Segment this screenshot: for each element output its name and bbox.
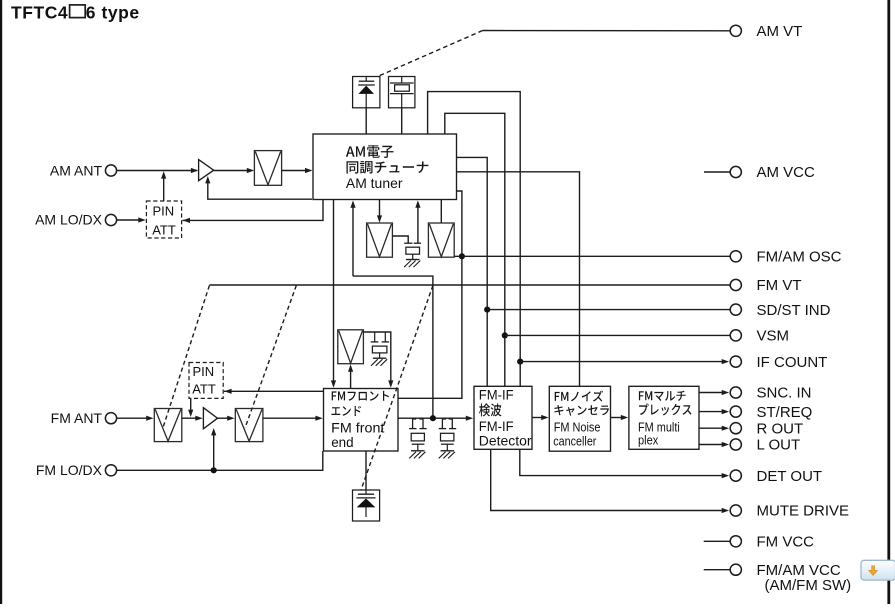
tuned circuit FM osc coil bbox=[338, 330, 364, 364]
node junction VSM bbox=[502, 332, 508, 338]
svg-text:AM tuner: AM tuner bbox=[346, 175, 403, 191]
wire AM tuner osc pin to FM/AM OSC node and FM front end bbox=[398, 191, 462, 398]
svg-text:TFTC4: TFTC4 bbox=[11, 2, 68, 22]
wire resonator X1 to AM tuner bbox=[401, 108, 403, 134]
terminal SD/ST IND bbox=[730, 304, 741, 315]
wire varactor D1 to AM tuner bbox=[365, 108, 367, 134]
svg-text:canceller: canceller bbox=[553, 434, 597, 449]
scroll-down button bbox=[861, 560, 895, 580]
wire FM front end to FM-IF detector bus bbox=[398, 417, 467, 419]
wire multiplex to SNC. IN bbox=[699, 392, 722, 394]
wire AM LO/DX to PIN ATT bbox=[117, 219, 140, 221]
wire osc coil top to FM front end bbox=[363, 332, 390, 382]
wire noise canceller to multiplex bbox=[611, 417, 623, 419]
wire dashed AM VT to varactor D1 bbox=[378, 31, 483, 77]
wire AM tuner to osc coil L2 bbox=[440, 200, 442, 224]
svg-text:FM ANT: FM ANT bbox=[51, 410, 103, 426]
svg-text:L OUT: L OUT bbox=[757, 437, 801, 454]
wire MUTE DRIVE bbox=[491, 449, 722, 510]
wire IF COUNT line bbox=[520, 361, 722, 363]
wire FM-IF to noise canceller bbox=[532, 417, 542, 419]
wire AM tuner to FM front end bbox=[333, 200, 335, 382]
node junction FM/AM OSC bbox=[459, 253, 465, 259]
wire FM/AM OSC line bbox=[454, 255, 730, 257]
svg-text:IF COUNT: IF COUNT bbox=[757, 354, 828, 371]
block FM PIN ATT bbox=[189, 363, 223, 399]
wire DET OUT bbox=[520, 449, 722, 475]
page left border bbox=[0, 0, 2, 604]
wire multiplex to L OUT bbox=[699, 444, 722, 446]
wire dashed FM VT to FM RF coil bbox=[245, 286, 296, 429]
svg-text:AM VCC: AM VCC bbox=[757, 164, 816, 181]
wire FM VT line bbox=[209, 284, 730, 286]
terminal FM VT bbox=[730, 279, 741, 290]
wire AM tuner pin to SNC feed (via top) to FM-IF (IF COUNT tap) bbox=[428, 92, 521, 387]
capacitor C4 to ground bbox=[442, 419, 446, 429]
ground under C3 bbox=[411, 450, 425, 452]
node junction SD/ST IND bbox=[484, 307, 490, 313]
svg-text:FM VCC: FM VCC bbox=[757, 534, 815, 551]
terminal FM VCC bbox=[730, 536, 741, 547]
ground under C2 bbox=[373, 357, 387, 359]
tuned circuit L1 (AM osc coil) bbox=[367, 223, 393, 257]
tuned circuit FM antenna coil bbox=[154, 409, 182, 442]
block AM PIN ATT bbox=[146, 201, 181, 238]
wire FM PIN ATT down to antenna line bbox=[190, 398, 192, 411]
svg-text:FM VT: FM VT bbox=[757, 277, 802, 294]
svg-text:FM front: FM front bbox=[331, 421, 384, 436]
terminal SNC. IN bbox=[730, 387, 741, 398]
wire AM tuner to osc coil L1 bbox=[379, 200, 381, 218]
terminal AM VCC bbox=[730, 166, 741, 177]
block U5 FM multiplex bbox=[629, 386, 699, 449]
svg-text:plex: plex bbox=[638, 433, 659, 448]
resonator X1 box bbox=[389, 77, 415, 108]
wire FM ANT to antenna coil bbox=[117, 417, 148, 419]
wire AM VT terminal lead bbox=[483, 30, 731, 32]
svg-text:AM VT: AM VT bbox=[757, 23, 803, 40]
capacitor C2 (FM osc trimmer) bbox=[374, 332, 376, 342]
wire dashed FM VT to FM antenna coil bbox=[163, 286, 209, 428]
wire AM tuned circuit to AM tuner block bbox=[282, 170, 306, 172]
svg-text:FM/AM OSC: FM/AM OSC bbox=[757, 249, 842, 266]
svg-text:AM ANT: AM ANT bbox=[50, 162, 103, 178]
capacitor C3 to ground bbox=[413, 419, 417, 429]
svg-text:PIN: PIN bbox=[153, 203, 175, 218]
capacitor C1 (AM padder, split) bbox=[404, 242, 412, 244]
svg-text:DET OUT: DET OUT bbox=[757, 468, 823, 485]
svg-text:end: end bbox=[331, 435, 353, 450]
svg-text:ATT: ATT bbox=[192, 382, 216, 397]
amplifier AM RF amp bbox=[199, 160, 214, 181]
block U3 FM-IF detector bbox=[474, 386, 532, 449]
svg-text:Detector: Detector bbox=[479, 434, 532, 449]
amplifier FM RF amp bbox=[203, 408, 217, 429]
wire AM IF output to FM-IF input bus bbox=[353, 276, 433, 418]
wire AM tuner pin via top to FM-IF (VSM tap) bbox=[445, 113, 505, 386]
varactor D1 (AM tuning) box bbox=[353, 77, 380, 108]
svg-text:FM Noise: FM Noise bbox=[554, 420, 601, 435]
wire multiplex to ST/REQ bbox=[699, 411, 722, 413]
wire AM tuner right pin to FM-IF (SD/ST tap) bbox=[457, 157, 488, 386]
svg-text:SD/ST IND: SD/ST IND bbox=[757, 302, 831, 319]
tuned circuit AM RF coil bbox=[254, 151, 281, 186]
wire multiplex to R OUT bbox=[699, 427, 722, 429]
block U4 FM noise canceller bbox=[549, 386, 610, 451]
ground under C1 bbox=[406, 259, 420, 261]
svg-text:R OUT: R OUT bbox=[757, 420, 804, 437]
wire FM RF coil to FM front end bbox=[263, 417, 316, 419]
terminal MUTE DRIVE bbox=[730, 505, 741, 516]
terminal FM/AM VCC bbox=[730, 564, 741, 575]
svg-text:ATT: ATT bbox=[152, 222, 176, 237]
tuned circuit L2 (AM osc coil) bbox=[428, 223, 454, 257]
varactor D2 (FM tuning) box bbox=[353, 490, 380, 521]
terminal L OUT bbox=[730, 439, 741, 450]
svg-text:6 type: 6 type bbox=[86, 2, 140, 22]
page right border bbox=[887, 0, 890, 604]
svg-text:FM-IF: FM-IF bbox=[479, 419, 514, 434]
wire AM VCC terminal stub bbox=[704, 171, 730, 173]
wire dashed FM VT to FM osc varactor bbox=[361, 286, 433, 491]
node junction IF COUNT bbox=[517, 359, 523, 365]
wire FM coil to amplifier bbox=[182, 417, 197, 419]
node junction FM LO/DX bbox=[211, 467, 217, 473]
wire AM tuner to PIN ATT (AGC control) bbox=[182, 200, 323, 221]
wire FM/AM VCC stub bbox=[704, 569, 731, 571]
wire VSM line bbox=[505, 334, 730, 336]
wire AM PIN ATT to antenna line bbox=[163, 177, 165, 202]
ground under C4 bbox=[441, 450, 455, 452]
terminal R OUT bbox=[730, 423, 741, 434]
tuned circuit FM RF coil bbox=[235, 409, 263, 442]
wire FM front end to osc coil bottom bbox=[350, 369, 352, 388]
terminal AM VT bbox=[730, 25, 741, 36]
wire FM LO/DX line bbox=[117, 451, 323, 470]
wire AM AGC to amplifier bbox=[208, 182, 312, 200]
wire amp to AM tuned circuit bbox=[214, 170, 248, 172]
block U2 FM front end bbox=[324, 389, 399, 452]
wire FM front end to varactor D2 bbox=[365, 451, 367, 490]
svg-text:MUTE DRIVE: MUTE DRIVE bbox=[757, 503, 850, 520]
terminal VSM bbox=[730, 330, 741, 341]
svg-text:VSM: VSM bbox=[757, 328, 790, 345]
terminal FM/AM OSC bbox=[730, 251, 741, 262]
svg-text:PIN: PIN bbox=[193, 364, 215, 379]
svg-text:FM-IF: FM-IF bbox=[479, 387, 514, 402]
wire FM front end to FM PIN ATT bbox=[224, 390, 324, 392]
svg-text:SNC. IN: SNC. IN bbox=[757, 385, 812, 402]
terminal DET OUT bbox=[730, 470, 741, 481]
terminal IF COUNT bbox=[730, 356, 741, 367]
wire AM tuner to FM noise canceller bbox=[457, 172, 580, 386]
svg-text:ST/REQ: ST/REQ bbox=[757, 404, 813, 421]
svg-text:FM LO/DX: FM LO/DX bbox=[36, 462, 103, 478]
wire FM VCC stub bbox=[704, 540, 731, 542]
svg-text:(AM/FM SW): (AM/FM SW) bbox=[765, 577, 852, 594]
wire LO/DX to FM amplifier bbox=[213, 434, 215, 471]
svg-text:AM LO/DX: AM LO/DX bbox=[35, 212, 103, 228]
terminal ST/REQ bbox=[730, 406, 741, 417]
wire L1 to trimmer capacitor C1 bbox=[392, 236, 408, 243]
wire AM ANT to amplifier bbox=[117, 170, 197, 172]
block U1 AM tuner bbox=[313, 134, 457, 200]
wire amp to FM RF coil bbox=[218, 417, 229, 419]
node junction IF bus bbox=[430, 415, 436, 421]
wire capacitor C1 to AM tuner bbox=[417, 206, 419, 243]
wire SD/ST IND line bbox=[487, 309, 730, 311]
